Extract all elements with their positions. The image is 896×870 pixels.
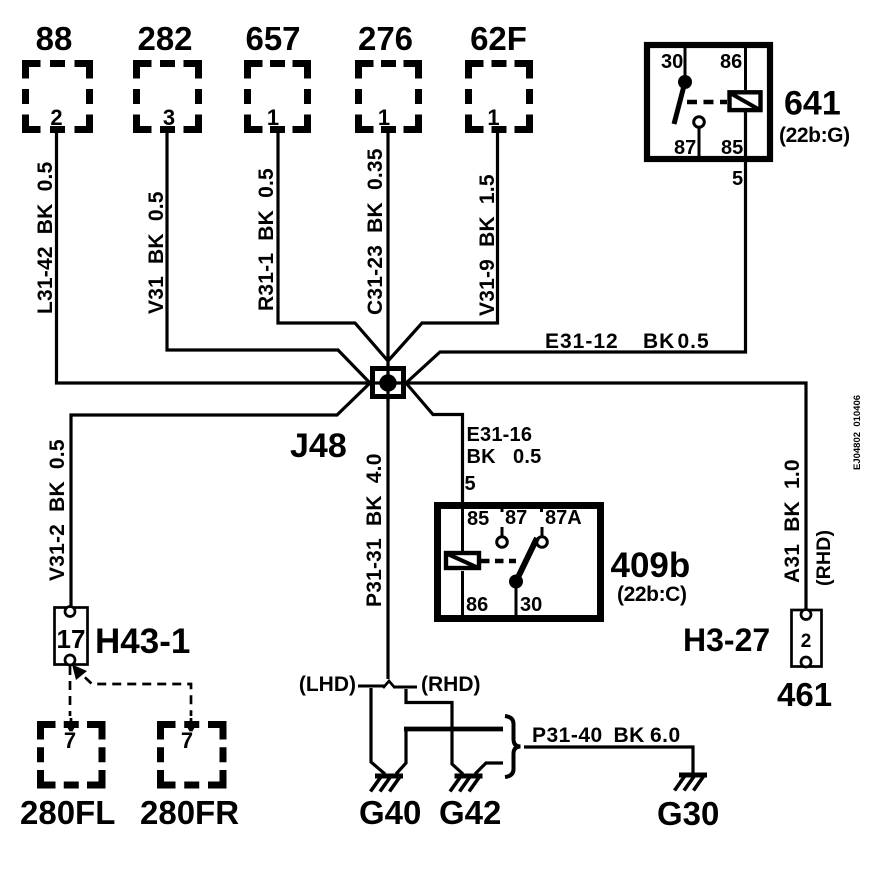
wire E31-16 from J48 to 409b (406, 383, 463, 504)
wire R31-1 from 657 to J48 (278, 130, 388, 361)
svg-text:88: 88 (36, 20, 73, 57)
relay 641 switch arm (674, 82, 685, 124)
connector 282 (137, 64, 199, 130)
svg-text:A31 BK 1.0: A31 BK 1.0 (781, 459, 804, 583)
svg-text:H43-1: H43-1 (95, 622, 190, 661)
relay 641 contact 87 circle (694, 117, 705, 128)
svg-text:280FL: 280FL (20, 794, 115, 831)
wire RHD to G42 (406, 689, 463, 774)
wire V31-2 from J48 to H43-1 (71, 383, 370, 607)
svg-text:L31-42 BK 0.5: L31-42 BK 0.5 (34, 161, 57, 314)
svg-text:BK 0.5: BK 0.5 (467, 446, 542, 468)
H43-1 top terminal (65, 607, 75, 617)
svg-text:461: 461 (777, 676, 832, 713)
relay 409b pin 85 lead (461, 504, 464, 551)
connector 657 (248, 64, 308, 130)
svg-text:85: 85 (467, 508, 489, 530)
component H43-1 box (55, 608, 88, 665)
connector 276 (359, 64, 419, 130)
wire A31 from J48 to H3-27 (404, 383, 806, 609)
svg-text:87A: 87A (545, 507, 582, 529)
relay 641 pin 87 lead (698, 127, 701, 159)
svg-text:7: 7 (181, 728, 193, 753)
svg-text:V31-2 BK 0.5: V31-2 BK 0.5 (46, 439, 69, 581)
arrowhead at H43-1 terminal (72, 665, 87, 681)
svg-text:280FR: 280FR (140, 794, 239, 831)
ground G30 (679, 773, 707, 778)
wire bundle heavy line (404, 727, 503, 732)
svg-text:(RHD): (RHD) (421, 673, 480, 696)
svg-text:1: 1 (487, 105, 499, 130)
svg-text:85: 85 (721, 137, 743, 159)
svg-text:276: 276 (358, 20, 413, 57)
wire E31-12 from 641 pin 5 to J48 (406, 112, 746, 383)
svg-text:R31-1 BK 0.5: R31-1 BK 0.5 (255, 168, 278, 311)
relay 409b contact 87 circle (497, 537, 508, 548)
wire V31 from 282 to J48 (167, 130, 370, 383)
relay 641 coil link dashed (687, 100, 727, 105)
svg-text:V31-9 BK 1.5: V31-9 BK 1.5 (476, 174, 499, 316)
svg-text:EJ04802 010406: EJ04802 010406 (852, 395, 863, 470)
svg-text:3: 3 (163, 105, 175, 130)
svg-text:5: 5 (732, 168, 743, 190)
relay 409b coil (446, 553, 479, 568)
relay 641 switch pivot (678, 75, 692, 89)
svg-text:C31-23 BK 0.35: C31-23 BK 0.35 (364, 148, 387, 315)
svg-text:P31-31 BK 4.0: P31-31 BK 4.0 (363, 453, 386, 607)
relay 409b pin 87 top tick (502, 505, 542, 512)
H3-27 bottom terminal (801, 657, 811, 667)
svg-text:7: 7 (64, 728, 76, 753)
connector 62F (469, 64, 530, 130)
relay 409b box (438, 506, 601, 619)
svg-text:641: 641 (784, 85, 841, 123)
svg-text:V31 BK 0.5: V31 BK 0.5 (145, 191, 168, 314)
wire P31-31 from J48 to splice (386, 399, 389, 679)
relay 641 pin 86 lead (744, 45, 747, 90)
svg-text:86: 86 (466, 594, 488, 616)
ground G42 (455, 774, 483, 779)
svg-text:J48: J48 (290, 427, 347, 465)
relay 641 pin 30 lead (684, 45, 687, 78)
svg-text:(RHD): (RHD) (813, 530, 835, 586)
connector 280FL (41, 725, 103, 786)
ground G40 (375, 774, 403, 779)
H43-1 bottom terminal (65, 655, 75, 665)
svg-text:(LHD): (LHD) (299, 673, 356, 696)
280FL wire entry arrow (67, 718, 76, 731)
dashed link H43-1 to 280FR (74, 667, 191, 716)
svg-text:G42: G42 (439, 794, 501, 831)
connector 280FR (161, 725, 224, 786)
svg-text:H3-27: H3-27 (683, 622, 770, 658)
svg-text:G40: G40 (359, 794, 421, 831)
svg-text:G30: G30 (657, 795, 719, 832)
svg-text:30: 30 (661, 51, 683, 73)
relay 409b coil link dashed (481, 559, 516, 564)
wire V31-9 from 62F to J48 (388, 130, 498, 361)
svg-text:30: 30 (520, 594, 542, 616)
wire L31-42 from 88 to J48 (57, 130, 373, 383)
wire C31-23 from 276 to J48 (386, 130, 389, 366)
svg-text:86: 86 (720, 51, 742, 73)
svg-text:62F: 62F (470, 20, 527, 57)
relay 409b switch pivot (509, 575, 523, 589)
svg-text:17: 17 (57, 624, 86, 654)
dashed link H43-1 to 280FL (69, 666, 72, 716)
svg-text:2: 2 (50, 105, 62, 130)
wire G40 right leg (396, 729, 406, 774)
component H3-27 box (792, 610, 822, 667)
svg-text:5: 5 (465, 473, 476, 495)
svg-text:1: 1 (378, 105, 390, 130)
brace (505, 716, 521, 777)
svg-text:(22b:C): (22b:C) (617, 583, 687, 606)
svg-text:87: 87 (674, 137, 696, 159)
wire P31-40 to G30 (524, 747, 693, 773)
280FR wire entry arrow (187, 718, 196, 731)
svg-text:(22b:G): (22b:G) (779, 124, 850, 147)
relay 641 coil (730, 92, 761, 110)
svg-text:657: 657 (245, 20, 300, 57)
relay 641 box (647, 45, 770, 159)
junction J48 through wire (368, 364, 408, 401)
relay 409b switch arm (516, 538, 537, 582)
splice chevron (383, 681, 395, 688)
svg-text:409b: 409b (611, 546, 691, 585)
splice bars (358, 686, 417, 687)
svg-text:E31-16: E31-16 (467, 424, 533, 446)
svg-text:2: 2 (801, 631, 812, 652)
connector 88 (26, 64, 90, 130)
H3-27 top terminal (801, 610, 811, 620)
junction J48 node dot (379, 374, 396, 391)
svg-text:282: 282 (137, 20, 192, 57)
wire LHD to G40 (371, 688, 385, 774)
relay 409b pin 86 lead (461, 571, 464, 619)
wire G42 right leg (475, 763, 503, 774)
relay 409b pin 30 lead (515, 582, 518, 620)
svg-text:1: 1 (267, 105, 279, 130)
relay 409b contact 87A circle (537, 537, 548, 548)
junction J48 box (373, 369, 404, 397)
svg-text:87: 87 (505, 507, 527, 529)
